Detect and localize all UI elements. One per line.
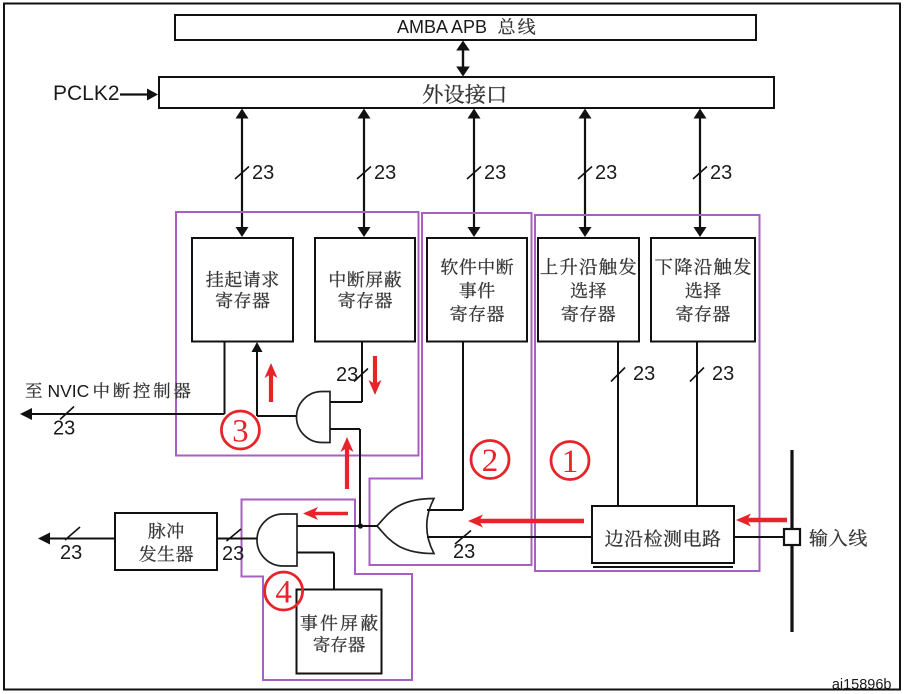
- red arrow down (mask): [369, 356, 382, 395]
- box pulse generator 脉冲发生器: [115, 513, 217, 570]
- wire software event register to O1 input: [427, 341, 463, 510]
- bus width slash+23 x=364: [357, 162, 396, 184]
- red arrow up (pending): [265, 363, 278, 402]
- wire A1 output to pending register: [252, 342, 297, 416]
- label 软件中断/事件/寄存器: [441, 258, 513, 322]
- wire edge detect to input pad: [734, 536, 784, 538]
- red arrow left (to A2): [303, 507, 348, 520]
- svg-text:23: 23: [595, 162, 617, 184]
- node junction dot: [358, 523, 363, 528]
- svg-text:23: 23: [374, 162, 396, 184]
- red circled 1: [551, 442, 589, 480]
- label ai15896b: [832, 677, 892, 693]
- svg-text:NVIC: NVIC: [48, 381, 90, 401]
- label AMBA APB 总线: [397, 17, 535, 37]
- group 2 outline (software event): [370, 213, 532, 565]
- svg-text:23: 23: [53, 418, 75, 440]
- box software interrupt event register 软件中断事件寄存器: [427, 238, 527, 342]
- svg-text:3: 3: [232, 413, 249, 449]
- bus arrow x=700: [694, 109, 707, 238]
- bus width slash+23 x=242: [235, 162, 274, 184]
- box falling edge trigger selection register 下降沿触发选择寄存器: [651, 238, 755, 342]
- arrow PCLK2 into interface: [120, 89, 158, 101]
- red circled 3: [221, 411, 259, 449]
- label 输入线: [809, 529, 866, 547]
- group 1 outline (edge detect): [535, 215, 760, 571]
- and-gate A1 (mirrored): [297, 392, 330, 443]
- wire mask register to A1 input: [330, 342, 362, 403]
- red arrow up (node to A1): [341, 437, 354, 489]
- svg-text:23: 23: [453, 541, 475, 563]
- wire node to A2 upper input: [297, 525, 360, 527]
- bus arrow x=364: [358, 109, 371, 238]
- red arrow left (input to edge detect): [736, 514, 787, 527]
- label PCLK2: [53, 82, 120, 105]
- svg-text:23: 23: [484, 162, 506, 184]
- red circled 2: [471, 441, 509, 479]
- svg-text:PCLK2: PCLK2: [53, 82, 120, 105]
- wire rising edge register to edge detect: [617, 342, 619, 507]
- box rising edge trigger selection register 上升沿触发选择寄存器: [538, 238, 639, 342]
- slash+23 rising bus: [611, 363, 655, 385]
- label 上升沿触发/选择/寄存器: [541, 258, 636, 322]
- svg-text:23: 23: [712, 363, 734, 385]
- svg-text:23: 23: [252, 162, 274, 184]
- slash+23 falling bus: [690, 363, 734, 385]
- label 事件屏蔽/寄存器: [301, 614, 378, 652]
- group 3 outline (pending/mask): [176, 212, 419, 456]
- box interrupt mask register 中断屏蔽寄存器: [315, 238, 415, 342]
- bus arrow x=474: [468, 109, 481, 238]
- label 外设接口: [423, 84, 505, 104]
- bus width slash+23 x=700: [693, 162, 732, 184]
- bus arrow APB-interface: [456, 41, 470, 77]
- label 下降沿触发/选择/寄存器: [655, 258, 750, 322]
- box edge detect circuit 边沿检测电路: [592, 506, 734, 563]
- bus arrow x=242: [236, 109, 249, 238]
- slash+23 A2 output bus: [222, 529, 244, 565]
- group 4 outline (event mask): [242, 500, 413, 681]
- wire falling edge register to edge detect: [696, 342, 698, 507]
- label 至 NVIC 中断控制器: [26, 381, 191, 401]
- svg-text:ai15896b: ai15896b: [832, 677, 892, 693]
- slash+23 NVIC bus: [53, 407, 75, 440]
- label 脉冲/发生器: [139, 522, 193, 562]
- slash+23 pulse out bus: [60, 527, 82, 564]
- label 中断屏蔽/寄存器: [330, 271, 401, 309]
- wire edge detect to O1 input: [427, 536, 592, 538]
- box peripheral interface 外设接口: [159, 77, 774, 108]
- wire event mask register to A2 lower input: [297, 553, 334, 590]
- svg-text:23: 23: [633, 363, 655, 385]
- wire O1 output to node: [360, 525, 377, 527]
- wire A1 lower input from node: [330, 429, 360, 526]
- input pad square: [784, 529, 800, 545]
- bus width slash+23 x=585: [578, 162, 617, 184]
- svg-text:23: 23: [336, 364, 358, 386]
- label 挂起请求/寄存器: [206, 271, 278, 309]
- slash+23 edge detect bus: [453, 531, 475, 564]
- extra bottom line of edge detect box: [593, 566, 733, 568]
- svg-text:4: 4: [275, 574, 292, 610]
- box event mask register 事件屏蔽寄存器: [297, 590, 382, 674]
- svg-text:1: 1: [562, 444, 579, 480]
- svg-text:AMBA APB: AMBA APB: [397, 17, 487, 37]
- or-gate O1 (mirrored): [377, 499, 434, 554]
- wire A2 output to pulse generator: [217, 538, 258, 540]
- wire pulse generator output with arrow: [38, 533, 115, 545]
- red circled 4: [265, 572, 303, 610]
- box AMBA APB bus: [175, 15, 756, 40]
- bus width slash+23 x=474: [467, 162, 506, 184]
- wire pending-register to NVIC line: [224, 342, 226, 415]
- slash+23 mask bus: [336, 364, 368, 386]
- svg-text:2: 2: [482, 443, 499, 479]
- svg-text:23: 23: [60, 542, 82, 564]
- label 边沿检测电路: [605, 530, 720, 548]
- svg-text:23: 23: [710, 162, 732, 184]
- box pending request register 挂起请求寄存器: [192, 238, 293, 342]
- red arrow left (edge detect to OR): [468, 515, 584, 528]
- input line vertical: [790, 450, 793, 632]
- bus arrow x=585: [579, 109, 592, 238]
- svg-text:23: 23: [222, 543, 244, 565]
- wire to NVIC with arrow: [20, 408, 225, 420]
- and-gate A2 (mirrored): [257, 514, 297, 566]
